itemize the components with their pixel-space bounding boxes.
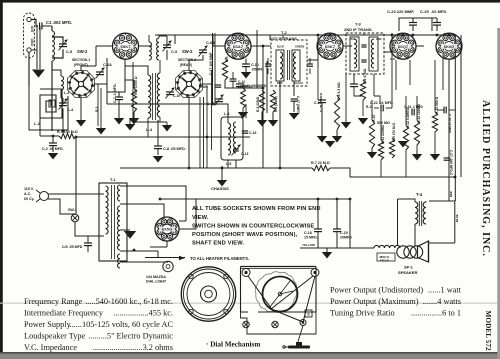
T-1 HV winding xyxy=(118,185,121,201)
wire r7 area xyxy=(312,165,330,170)
wire L3-C4 xyxy=(60,90,62,98)
wire C23 loop xyxy=(399,18,432,31)
capacitor C-5 trimmer xyxy=(59,43,67,45)
wire tube1 box xyxy=(107,58,125,92)
output transformer T-4 xyxy=(415,202,418,224)
wire tube5 pins down xyxy=(442,58,444,90)
svg-text:Frequency Range: Frequency Range xyxy=(24,297,83,306)
photo border top bar xyxy=(0,0,500,3)
T-3 trimmer caps xyxy=(361,44,366,46)
ground filter caps xyxy=(322,252,332,259)
T-2 secondary coil xyxy=(293,52,296,79)
capacitor C-25 xyxy=(433,22,441,24)
resistor R-4 xyxy=(222,58,227,80)
wire tube4 top xyxy=(402,34,404,35)
svg-text:C-16: C-16 xyxy=(249,131,256,135)
T-3 secondary coil xyxy=(371,39,374,68)
svg-text:.05MFD: .05MFD xyxy=(251,68,264,72)
T-1 rect fil winding xyxy=(118,206,121,250)
svg-text:C-13: C-13 xyxy=(241,152,248,156)
svg-text:C-6A: C-6A xyxy=(103,63,112,67)
wire r10 feed xyxy=(371,100,373,120)
resistor R-13 220K xyxy=(378,140,383,160)
wire grid bus tube2 xyxy=(212,33,214,104)
resistor R-16 470K xyxy=(389,138,394,158)
wire C5 bottom xyxy=(52,49,63,58)
ground under C7 xyxy=(114,118,124,125)
svg-text:R-9 3.3 MΩ: R-9 3.3 MΩ xyxy=(337,82,341,100)
wire plug to transformer xyxy=(48,193,104,195)
svg-text:(.05MFD): (.05MFD) xyxy=(238,85,252,89)
ground bus taps xyxy=(96,128,106,135)
dial main circle xyxy=(263,277,298,312)
wire bus y88 xyxy=(225,87,263,89)
wire r14 feed xyxy=(416,96,418,120)
svg-text:R-2 1000 Ω: R-2 1000 Ω xyxy=(134,76,138,95)
AC plug xyxy=(40,192,49,201)
svg-text:C-24 .1 MFD: C-24 .1 MFD xyxy=(404,105,423,109)
dial pulley top right xyxy=(311,269,319,277)
wire top bus xyxy=(155,34,455,36)
coil box L-5 L-6 xyxy=(221,117,243,160)
wire x184 drop xyxy=(185,218,187,221)
IF transformer T-3 box xyxy=(346,33,384,74)
wire mid bus xyxy=(350,176,455,178)
pilot light xyxy=(163,261,173,271)
wire x437 cap xyxy=(436,25,438,35)
svg-text:SHAFT END VIEW.: SHAFT END VIEW. xyxy=(192,241,244,247)
capacitor C-16 xyxy=(242,130,248,132)
svg-text:C-19: C-19 xyxy=(340,231,348,235)
ground tube4 xyxy=(398,141,408,148)
svg-text:RED: RED xyxy=(449,191,453,197)
svg-text:A.C.: A.C. xyxy=(24,192,31,196)
antenna terminal GND xyxy=(27,48,31,52)
coil box L-4 xyxy=(148,75,151,118)
svg-text:6SQ7: 6SQ7 xyxy=(398,44,408,49)
svg-text:C-6B: C-6B xyxy=(206,41,215,45)
svg-text:T-2: T-2 xyxy=(281,30,288,35)
svg-text:Power Output (Undistorted): Power Output (Undistorted) xyxy=(330,286,423,295)
svg-text:C-12: C-12 xyxy=(238,80,245,84)
svg-text:R-6 (5MΩ): R-6 (5MΩ) xyxy=(274,96,278,112)
wire v294 xyxy=(293,81,295,96)
wire v257 xyxy=(256,30,258,88)
svg-text:SW-2: SW-2 xyxy=(182,49,193,54)
svg-text:......1 watt: ......1 watt xyxy=(428,286,462,295)
svg-text:R-7 22 M.Ω: R-7 22 M.Ω xyxy=(311,161,330,165)
tube V6 6X5GT rectifier xyxy=(155,217,179,241)
photo border left bar xyxy=(0,0,3,353)
svg-text:Power Output (Maximum): Power Output (Maximum) xyxy=(330,297,419,306)
wire tube4 pins down xyxy=(395,60,397,90)
wire heater bus right xyxy=(120,257,158,259)
wire R2 top xyxy=(125,79,134,81)
ground mid3 xyxy=(430,154,440,161)
svg-text:.........5" Electro Dynamic: .........5" Electro Dynamic xyxy=(88,332,173,341)
speaker field coil xyxy=(374,245,400,248)
svg-text:60 Cy.: 60 Cy. xyxy=(24,197,34,201)
wire spiral out xyxy=(62,103,76,105)
wire bus under tubes xyxy=(76,136,250,138)
capacitor C-13 xyxy=(233,148,239,150)
dial foot mid xyxy=(272,321,278,327)
svg-text:Loudspeaker Type: Loudspeaker Type xyxy=(24,332,86,341)
capacitor C-6A trimmer xyxy=(96,71,104,73)
speaker front hub xyxy=(201,286,217,302)
svg-text:500 MΩ: 500 MΩ xyxy=(377,121,390,125)
dial scalloped plate xyxy=(255,272,296,313)
svg-text:C-8: C-8 xyxy=(390,57,395,61)
capacitor C-2 .05 MFD xyxy=(49,142,57,144)
svg-text:C-18: C-18 xyxy=(304,231,312,235)
wire grid bus xyxy=(225,80,240,88)
capacitor C-18 15MFD xyxy=(314,228,322,230)
capacitor C-16C xyxy=(215,98,223,100)
capacitor C-7 .1 MFD xyxy=(115,96,123,98)
svg-text:BLACK: BLACK xyxy=(294,81,303,85)
wire tube1 left lead xyxy=(96,45,113,47)
ground under R-9 xyxy=(332,136,342,143)
svg-text:DIAL LIGHT: DIAL LIGHT xyxy=(146,280,167,284)
wire rotor2 to bundle xyxy=(202,83,212,85)
ground antenna xyxy=(32,70,45,78)
svg-text:(REAR): (REAR) xyxy=(180,63,192,67)
svg-text:TO ALL HEATER FILAMENTS.: TO ALL HEATER FILAMENTS. xyxy=(190,256,249,261)
svg-text:GRN: GRN xyxy=(376,38,382,41)
IF transformer T-2 box xyxy=(271,40,307,86)
svg-text:C-8 .05 MFD.: C-8 .05 MFD. xyxy=(163,147,186,151)
capacitor C-23 xyxy=(409,22,417,24)
svg-text:L-3: L-3 xyxy=(64,91,69,95)
svg-text:.......4 watts: .......4 watts xyxy=(423,297,461,306)
wire rect to b+ xyxy=(160,198,350,200)
wire sw2 stub xyxy=(188,126,190,137)
tube V4 6SQ7 xyxy=(390,33,416,59)
wire osc box top xyxy=(216,104,228,123)
speaker front ring3 xyxy=(187,273,230,316)
svg-text:...............6 to 1: ...............6 to 1 xyxy=(411,309,461,318)
wire rectifier heater xyxy=(166,241,168,247)
junction dots xyxy=(317,34,320,37)
coil L-3 xyxy=(61,76,64,90)
wire tube3 top xyxy=(329,34,331,35)
dial mechanism side plates xyxy=(240,267,242,313)
resistor R-6 5M xyxy=(270,90,275,112)
ground under C-14 xyxy=(317,136,327,143)
dial mechanism top bar xyxy=(241,266,317,268)
svg-text:L-5: L-5 xyxy=(224,112,229,116)
antenna terminal ANT xyxy=(27,17,31,21)
T-2 primary coil xyxy=(280,52,283,79)
wire sw1 right xyxy=(94,58,107,84)
wire L2-L3 xyxy=(52,70,61,76)
svg-text:.....540-1600 kc., 6-18 mc.: .....540-1600 kc., 6-18 mc. xyxy=(85,297,173,306)
svg-text:6SK7: 6SK7 xyxy=(121,44,131,49)
wire heater left seg xyxy=(145,257,158,259)
wire T2 left xyxy=(262,45,271,47)
svg-text:Intermediate Frequency: Intermediate Frequency xyxy=(24,309,104,318)
capacitor C-24 .1MFD xyxy=(411,109,413,116)
resistor R-14 100K xyxy=(414,120,419,145)
svg-text:C-27 .006 MFD-C: C-27 .006 MFD-C xyxy=(449,150,453,176)
ground r8 xyxy=(358,118,368,125)
wire field to b+ xyxy=(300,247,374,249)
svg-text:C-23 220 MMF.: C-23 220 MMF. xyxy=(387,9,414,14)
ground under R2 xyxy=(129,118,139,125)
resistor R-5 xyxy=(259,90,264,112)
capacitor C-10 .05MFD xyxy=(242,63,250,65)
photo border bottom bar xyxy=(0,353,500,359)
wire T4 top xyxy=(429,200,455,202)
wire gnd terminal xyxy=(31,49,37,51)
capacitor C-11 .0004 xyxy=(236,83,244,85)
speaker voice coil xyxy=(397,246,409,258)
tube V2 6SA7 xyxy=(225,33,251,59)
wire chassis bus xyxy=(120,167,312,169)
capacitor C1 .002 MFD xyxy=(39,22,41,29)
wire v455 taps xyxy=(454,201,456,243)
svg-text:R-1 100 M.Ω: R-1 100 M.Ω xyxy=(57,130,78,134)
capacitor C-19b xyxy=(350,83,358,85)
capacitor C-17 2MFD xyxy=(291,98,298,100)
wire tube1 lower left xyxy=(106,92,108,104)
wire tube1 right xyxy=(138,45,152,47)
svg-text:C-17 (2MFD): C-17 (2MFD) xyxy=(296,96,300,115)
wire x203 drop xyxy=(202,55,204,60)
capacitor C-14 .05 xyxy=(318,99,326,101)
capacitor C-8 .05 MFD xyxy=(154,145,162,147)
svg-text:20MFD: 20MFD xyxy=(340,236,352,240)
T-1 heater winding xyxy=(118,254,121,268)
svg-text:C-25 .02 MFD.: C-25 .02 MFD. xyxy=(420,9,447,14)
wire L4 top right xyxy=(159,60,161,73)
wire ant to C1 xyxy=(31,20,38,27)
svg-text:BLUE: BLUE xyxy=(277,45,284,49)
svg-text:FIELD: FIELD xyxy=(380,259,389,263)
resistor R-2 1000 ohm xyxy=(131,88,136,112)
wire tube2 plate xyxy=(237,34,239,35)
svg-text:ALLIED PURCHASING, INC.: ALLIED PURCHASING, INC. xyxy=(480,100,491,257)
wire r8 bottom xyxy=(362,100,364,116)
resistor R-15 560 xyxy=(432,112,437,132)
svg-text:BLU: BLU xyxy=(350,38,355,41)
capacitor C-3 .05 MFD xyxy=(84,242,92,244)
wire v280 xyxy=(279,81,281,168)
svg-text:L-5: L-5 xyxy=(226,162,231,166)
svg-text:L-4: L-4 xyxy=(146,127,153,132)
svg-text:C-26 20 MFD: C-26 20 MFD xyxy=(448,114,452,134)
svg-text:· Dial Mechanism: · Dial Mechanism xyxy=(206,341,260,349)
svg-text:POSITION (SHORT WAVE POSITION): POSITION (SHORT WAVE POSITION), xyxy=(192,232,298,238)
wire sw1 to transformer xyxy=(75,222,104,236)
svg-text:R-13 220MΩ: R-13 220MΩ xyxy=(381,125,385,144)
fold line xyxy=(0,303,497,304)
T-2 core xyxy=(287,50,289,80)
ground under R6 xyxy=(268,120,278,127)
svg-text:R-10: R-10 xyxy=(372,115,376,122)
svg-text:C-16B: C-16B xyxy=(199,85,209,89)
T-3 primary coil xyxy=(354,39,357,68)
svg-text:GND: GND xyxy=(30,39,34,47)
svg-text:SPEAKER: SPEAKER xyxy=(398,270,417,275)
svg-text:SW-2: SW-2 xyxy=(77,49,88,54)
switch SW-2 section 1 rotor xyxy=(67,70,94,97)
photo border right bar xyxy=(497,28,500,359)
capacitor C-9 trimmer xyxy=(163,44,171,46)
wire C1 down pair xyxy=(36,26,38,69)
svg-text:CHASSIS: CHASSIS xyxy=(211,186,229,191)
speaker front ring2 xyxy=(184,269,234,319)
svg-text:C/3 .05 MFD: C/3 .05 MFD xyxy=(62,245,83,249)
wire C9 xyxy=(166,36,168,45)
resistor R-5b xyxy=(241,88,246,108)
ground tap3 xyxy=(162,125,172,132)
wire mid v222 xyxy=(221,166,223,168)
svg-text:R16 470 M.Ω: R16 470 M.Ω xyxy=(392,123,396,142)
wire r13 feed xyxy=(380,111,382,140)
wire L1 feed xyxy=(49,83,51,89)
wire r12 feed xyxy=(405,96,407,125)
capacitor C-10A trimmer xyxy=(166,91,174,93)
svg-text:T-3: T-3 xyxy=(355,22,362,27)
svg-text:R-11: R-11 xyxy=(366,105,373,109)
wire tube4 right xyxy=(416,45,424,47)
wire R1 right down xyxy=(75,136,77,137)
svg-text:C-10: C-10 xyxy=(251,63,259,67)
diode load wires xyxy=(354,87,363,96)
svg-text:C-7 .1 MFD.: C-7 .1 MFD. xyxy=(113,83,117,103)
wire v263 xyxy=(262,47,264,168)
svg-text:2ND IF TRANS.: 2ND IF TRANS. xyxy=(344,27,373,32)
wire C5 connect xyxy=(52,37,63,44)
wire c24 run xyxy=(406,111,410,113)
wire osc bundle xyxy=(199,97,201,168)
svg-text:GREEN: GREEN xyxy=(295,45,304,49)
loop antenna L-1 spiral xyxy=(40,89,62,118)
wire b+ vert x160 xyxy=(159,187,161,216)
chassis ground xyxy=(217,180,227,187)
wire osc right xyxy=(245,104,247,118)
svg-text:........................3.2 oh: ........................3.2 ohms xyxy=(93,343,173,352)
svg-text:6SK7: 6SK7 xyxy=(325,44,335,49)
dial bottom outline xyxy=(241,312,317,334)
wire v392 xyxy=(391,35,393,52)
wire heater filaments arrow xyxy=(120,250,158,252)
capacitor C-26 20MFD xyxy=(443,107,445,114)
svg-text:SECTION-1: SECTION-1 xyxy=(72,58,90,62)
svg-text:C-1B .05MFD: C-1B .05MFD xyxy=(319,92,323,112)
wire gnd terminal down xyxy=(28,52,30,86)
T-1 primary winding xyxy=(106,186,109,234)
svg-text:C-10: C-10 xyxy=(173,94,180,98)
dial belt left xyxy=(248,276,271,308)
wire heater run xyxy=(120,262,163,264)
wire tube2 left xyxy=(213,45,225,47)
wire sw1 to tube1 xyxy=(81,66,96,71)
wire HV top to rectifier xyxy=(120,186,186,218)
ground under C2 xyxy=(48,153,58,160)
svg-text:115 V.: 115 V. xyxy=(24,187,34,191)
ground tap2 xyxy=(125,124,135,131)
wire top bus drops xyxy=(454,35,456,201)
resistor R-1 100K xyxy=(59,133,76,138)
wire rectifier out xyxy=(179,199,197,229)
wire v318b xyxy=(317,60,319,100)
wire tube5 down xyxy=(448,59,450,201)
dial pulley top left xyxy=(242,269,250,277)
dial belt lower xyxy=(271,309,303,322)
wire x76 down to SW1 xyxy=(75,137,77,214)
capacitor C-4 trimmer xyxy=(59,102,67,104)
wire L4 top left xyxy=(125,66,148,75)
svg-text:Power Supply: Power Supply xyxy=(24,320,72,329)
tube V5 6K6GT xyxy=(436,33,462,59)
svg-text:BLUE: BLUE xyxy=(455,214,459,222)
resistor R-9 3.3 M xyxy=(334,95,339,130)
svg-text:6SA7: 6SA7 xyxy=(233,44,243,49)
svg-text:R-5 22MΩ: R-5 22MΩ xyxy=(256,96,260,112)
ground rotor1 xyxy=(76,120,86,127)
wire v374 down xyxy=(373,74,375,96)
ground mid2 xyxy=(412,154,422,161)
capacitor C-27 .006 xyxy=(444,157,451,159)
coil L-2 xyxy=(52,31,55,61)
speaker front outer xyxy=(181,267,235,321)
wire R1 left xyxy=(40,135,59,137)
svg-text:.................455 kc.: .................455 kc. xyxy=(113,309,173,318)
ground under C-10 xyxy=(241,72,251,79)
wire T4 bottom to vc xyxy=(414,224,416,246)
svg-text:MODEL 572: MODEL 572 xyxy=(484,311,492,352)
speaker cone xyxy=(418,241,429,262)
wire T2 right xyxy=(307,35,318,60)
wire antenna bus to sw xyxy=(29,86,68,130)
dial belt right xyxy=(271,276,313,309)
svg-text:R-15 560 Ω: R-15 560 Ω xyxy=(435,97,439,114)
T-2 trimmers xyxy=(265,63,271,65)
ground under R5 xyxy=(257,120,267,127)
dial spokes xyxy=(280,281,290,294)
svg-text:#44 MAZDA: #44 MAZDA xyxy=(146,275,166,279)
dial foot left xyxy=(243,321,249,327)
wire sw2 bottom xyxy=(188,97,190,169)
wire top drops xyxy=(174,35,176,44)
dial pulley bottom xyxy=(300,320,306,326)
capacitor C-6B trimmer xyxy=(199,49,207,51)
wire v346 xyxy=(345,52,347,74)
capacitor C-22 .01MFD xyxy=(380,105,382,112)
svg-text:V.C. Impedance: V.C. Impedance xyxy=(24,343,77,352)
svg-text:SP-1: SP-1 xyxy=(404,265,414,270)
switch SW-2 section 2 rotor xyxy=(175,70,202,97)
svg-text:R-4: R-4 xyxy=(225,56,229,62)
svg-text:.......105-125 volts, 60 cycle: .......105-125 volts, 60 cycle AC xyxy=(67,320,173,329)
ground v294 xyxy=(289,113,299,120)
capacitor C-16-2 xyxy=(215,84,221,86)
svg-text:15 MFD.: 15 MFD. xyxy=(304,236,318,240)
T-1 core xyxy=(111,185,113,259)
capacitor C-12 .05MFD xyxy=(230,78,237,80)
svg-text:6X5G: 6X5G xyxy=(162,227,172,232)
svg-text:6K6G: 6K6G xyxy=(444,44,454,49)
svg-text:R-12 6.8MEG: R-12 6.8MEG xyxy=(406,107,410,128)
dial pointer xyxy=(297,326,303,346)
wire c22 run xyxy=(374,107,379,109)
dial hub xyxy=(278,292,282,296)
svg-text:C-22 .01 MFD.: C-22 .01 MFD. xyxy=(370,101,394,105)
svg-text:SW-1: SW-1 xyxy=(68,208,77,212)
